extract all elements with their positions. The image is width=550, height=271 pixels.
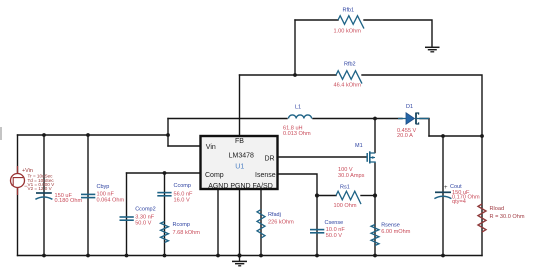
svg-text:0.064 Ohm: 0.064 Ohm bbox=[97, 198, 125, 204]
svg-text:R = 30.0 Ohm: R = 30.0 Ohm bbox=[490, 214, 525, 220]
svg-text:1.00 kOhm: 1.00 kOhm bbox=[334, 29, 362, 35]
svg-text:30.0 Amps: 30.0 Amps bbox=[338, 173, 365, 179]
resistor Rload bbox=[478, 204, 525, 232]
wire Rs1 right lead bbox=[361, 195, 375, 197]
wire Cout branch bbox=[442, 136, 444, 256]
svg-text:+: + bbox=[444, 185, 448, 191]
capacitor Cin bbox=[35, 193, 82, 204]
wire Cin branch bbox=[43, 135, 45, 256]
svg-text:Rfb1: Rfb1 bbox=[343, 8, 355, 14]
wire Ccomp Rcomp branch bbox=[164, 173, 166, 256]
wire D1 cathode to corner bbox=[420, 119, 429, 137]
wire FB row to Rfb2 bbox=[240, 74, 337, 76]
svg-text:7.68 kOhm: 7.68 kOhm bbox=[173, 230, 201, 236]
svg-text:50.0 V: 50.0 V bbox=[135, 220, 151, 226]
svg-text:Csense: Csense bbox=[325, 220, 344, 226]
resistor Rfadj bbox=[257, 210, 294, 239]
wire L1 input row bbox=[168, 118, 287, 120]
capacitor Cout bbox=[434, 184, 480, 205]
diode D1 schottky bbox=[397, 104, 429, 139]
inductor L1 bbox=[283, 105, 312, 138]
resistor Rfb2 bbox=[334, 62, 362, 89]
svg-text:Rfadj: Rfadj bbox=[268, 212, 281, 218]
wire Rfb2 right to Vout bbox=[362, 75, 482, 136]
wire M1 source bbox=[374, 163, 376, 196]
svg-text:Rsense: Rsense bbox=[381, 223, 400, 229]
svg-text:6.00 mOhm: 6.00 mOhm bbox=[381, 229, 411, 235]
svg-text:Cbyp: Cbyp bbox=[97, 184, 110, 190]
svg-text:qty=4: qty=4 bbox=[452, 199, 466, 205]
svg-text:Rs1: Rs1 bbox=[340, 184, 350, 190]
resistor Rsense bbox=[371, 223, 411, 246]
wire AGND pin bbox=[217, 189, 219, 256]
svg-text:Vin: Vin bbox=[206, 144, 216, 151]
svg-text:U1: U1 bbox=[235, 163, 244, 170]
wire Vout row bbox=[429, 135, 482, 137]
wire top-left rail bbox=[18, 134, 169, 136]
svg-text:AGND PGND FA/SD: AGND PGND FA/SD bbox=[208, 183, 273, 190]
ground GND1 top right bbox=[425, 47, 440, 52]
voltage source Vin bbox=[11, 166, 56, 195]
ground GND2 bottom bbox=[232, 256, 247, 266]
svg-text:Ccomp: Ccomp bbox=[174, 183, 191, 189]
svg-text:FB: FB bbox=[235, 138, 244, 145]
wire FB pin vertical bbox=[239, 75, 241, 136]
wire Rload branch bbox=[481, 136, 483, 256]
capacitor Ccomp2 bbox=[120, 207, 156, 227]
wire PGND pin bbox=[239, 189, 241, 256]
svg-text:20.0 A: 20.0 A bbox=[397, 133, 413, 139]
wire Vin feed vertical bbox=[167, 119, 169, 147]
resistor Rcomp bbox=[161, 222, 201, 243]
svg-text:100 Ohm: 100 Ohm bbox=[334, 203, 357, 209]
svg-text:L1: L1 bbox=[295, 105, 301, 111]
wire Comp row bbox=[127, 172, 201, 174]
svg-text:0.180 Ohm: 0.180 Ohm bbox=[55, 198, 83, 204]
wire DR pin to gate bbox=[278, 156, 367, 158]
wire Vin feed horizontal to U1 bbox=[168, 145, 201, 147]
wire Rsense branch bbox=[374, 196, 376, 256]
resistor Rfb1 bbox=[334, 8, 364, 35]
edge artifact bbox=[0, 127, 2, 140]
svg-text:DR: DR bbox=[265, 156, 275, 163]
wire Rfb1 right to ground bbox=[364, 20, 432, 47]
svg-text:0.013 Ohm: 0.013 Ohm bbox=[283, 131, 311, 137]
capacitor Csense bbox=[310, 220, 345, 239]
svg-text:16.0 V: 16.0 V bbox=[174, 197, 190, 203]
transistor M1 MOSFET bbox=[338, 143, 375, 179]
wire Rs1 left lead bbox=[317, 195, 336, 197]
wire L1 to switch node bbox=[313, 118, 375, 120]
op-amp U1 LM3478 IC body bbox=[201, 136, 278, 190]
svg-text:Comp: Comp bbox=[205, 172, 224, 179]
wire M1 drain bbox=[374, 119, 376, 153]
svg-text:Rcomp: Rcomp bbox=[173, 222, 190, 228]
svg-text:Isense: Isense bbox=[255, 172, 276, 179]
wire bottom rail bbox=[18, 255, 483, 257]
wire Csense branch bbox=[316, 196, 318, 256]
wire FA/SD pin with Rfadj bbox=[260, 189, 262, 256]
svg-text:50.0 V: 50.0 V bbox=[326, 233, 342, 239]
svg-text:46.4 kOhm: 46.4 kOhm bbox=[334, 83, 362, 89]
capacitor Cbyp bbox=[81, 184, 125, 204]
svg-text:V2 = 12.0 V: V2 = 12.0 V bbox=[28, 186, 53, 191]
svg-text:Rload: Rload bbox=[490, 206, 505, 212]
svg-text:LM3478: LM3478 bbox=[229, 153, 254, 160]
wire switch node to D1 anode bbox=[375, 118, 402, 120]
svg-text:M1: M1 bbox=[355, 143, 363, 149]
wire Ccomp2 branch bbox=[126, 173, 128, 256]
svg-text:Ccomp2: Ccomp2 bbox=[135, 207, 155, 213]
svg-text:226 kOhm: 226 kOhm bbox=[268, 220, 294, 226]
wire left vertical rail bbox=[17, 135, 19, 256]
svg-text:Rfb2: Rfb2 bbox=[344, 62, 356, 68]
resistor Rs1 bbox=[334, 184, 362, 209]
capacitor Ccomp bbox=[157, 183, 193, 203]
svg-text:−: − bbox=[24, 184, 28, 190]
svg-text:D1: D1 bbox=[406, 104, 413, 110]
wire FB node up to Rfb1 bbox=[294, 20, 296, 75]
wire Cbyp branch bbox=[87, 135, 89, 256]
wire Rfb1 left lead bbox=[295, 19, 338, 21]
wire Isense pin bbox=[278, 174, 318, 196]
